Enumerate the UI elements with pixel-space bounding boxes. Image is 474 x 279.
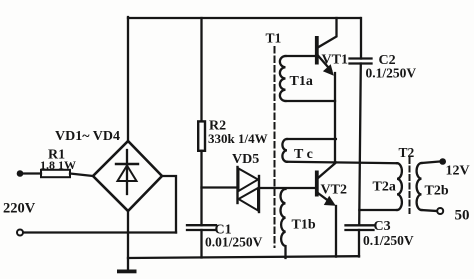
svg-text:12V: 12V	[446, 164, 470, 179]
svg-text:0.1/250V: 0.1/250V	[366, 66, 417, 81]
svg-text:VD1~ VD4: VD1~ VD4	[55, 129, 120, 144]
svg-text:T2: T2	[399, 145, 415, 160]
svg-text:VT1: VT1	[322, 53, 348, 68]
svg-text:T1a: T1a	[290, 74, 313, 89]
svg-text:1.8 1W: 1.8 1W	[40, 158, 76, 172]
svg-text:0.1/250V: 0.1/250V	[363, 233, 414, 248]
svg-text:VD5: VD5	[232, 152, 259, 167]
svg-text:C3: C3	[374, 219, 391, 234]
svg-text:T1b: T1b	[292, 218, 316, 233]
svg-text:330k 1/4W: 330k 1/4W	[208, 131, 268, 146]
svg-text:50: 50	[455, 208, 470, 224]
svg-text:0.01/250V: 0.01/250V	[205, 235, 263, 250]
svg-text:T2a: T2a	[373, 180, 396, 195]
svg-text:VT2: VT2	[321, 183, 347, 198]
svg-text:220V: 220V	[3, 201, 36, 217]
svg-text:T1: T1	[266, 31, 282, 46]
svg-text:T2b: T2b	[425, 184, 449, 199]
svg-text:T c: T c	[294, 147, 313, 162]
